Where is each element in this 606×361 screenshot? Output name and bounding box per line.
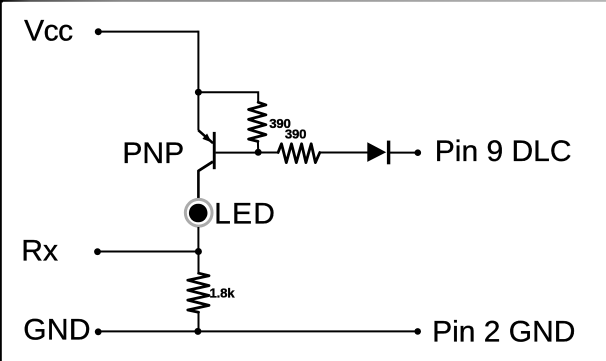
wire R3 bottom lead to GND rail [198, 312, 200, 331]
wire GND rail [98, 330, 418, 332]
node Vcc [95, 28, 102, 35]
svg-text:Pin 9 DLC: Pin 9 DLC [435, 135, 572, 168]
wire Vcc vertical down to emitter [197, 31, 199, 131]
wire R2 to diode anode [320, 152, 369, 154]
svg-text:LED: LED [214, 198, 276, 231]
svg-text:Vcc: Vcc [24, 15, 73, 48]
junction base node [255, 149, 262, 156]
wire LED cathode down to Rx junction [197, 227, 199, 252]
wire base node to resistor R2 [258, 152, 278, 154]
svg-text:Pin 2 GND: Pin 2 GND [432, 316, 575, 349]
wire Vcc horizontal [98, 31, 198, 33]
diode D1 [367, 141, 388, 165]
LED outer ring [185, 199, 212, 226]
transistor Q1 PNP [198, 130, 214, 171]
junction GND node [194, 328, 201, 335]
junction Rx node [195, 248, 202, 255]
node Pin 9 [415, 149, 422, 156]
node Pin 2 [414, 328, 421, 335]
node Rx [94, 248, 101, 255]
junction node at collector rail top [195, 89, 202, 96]
node GND [95, 328, 102, 335]
wire base [216, 152, 259, 154]
wire collector slant down to LED [198, 162, 213, 199]
svg-text:390: 390 [285, 127, 306, 142]
svg-text:1.8k: 1.8k [210, 286, 236, 301]
resistor R3 1.8k (vertical zigzag) [188, 273, 209, 312]
svg-text:PNP: PNP [122, 137, 184, 170]
wire Rx node down to resistor R3 [198, 252, 200, 274]
resistor R1 390 (vertical zigzag) [249, 102, 266, 141]
wire R1 bottom lead [257, 141, 259, 152]
wire diode cathode to Pin 9 node [390, 152, 418, 154]
wire Rx horizontal [98, 251, 199, 253]
resistor R2 390 (horizontal zigzag) [278, 144, 320, 163]
svg-text:Rx: Rx [21, 235, 58, 268]
wire junction to resistor R1 top lead [198, 92, 258, 102]
svg-text:GND: GND [23, 314, 91, 347]
LED body [189, 204, 208, 223]
